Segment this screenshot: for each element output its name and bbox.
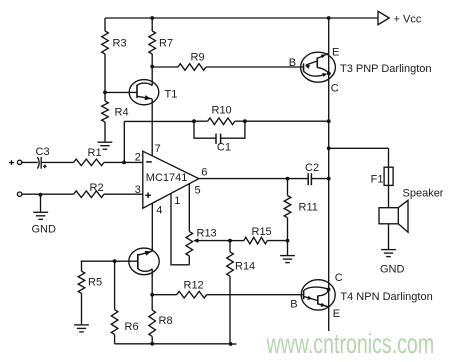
svg-text:E: E [333, 308, 340, 320]
svg-text:7: 7 [155, 143, 161, 155]
svg-text:GND: GND [380, 264, 405, 276]
svg-text:R9: R9 [191, 52, 205, 64]
svg-text:R1: R1 [88, 147, 102, 159]
svg-text:R6: R6 [125, 321, 139, 333]
svg-text:R2: R2 [90, 182, 104, 194]
svg-text:T3 PNP Darlington: T3 PNP Darlington [340, 63, 432, 75]
svg-text:B: B [290, 299, 297, 311]
svg-text:C: C [335, 272, 343, 284]
svg-text:R7: R7 [159, 38, 173, 50]
svg-text:MC1741: MC1741 [146, 172, 188, 184]
svg-text:C2: C2 [305, 162, 319, 174]
svg-text:R10: R10 [212, 105, 232, 117]
svg-text:R14: R14 [235, 261, 255, 273]
svg-text:R3: R3 [113, 38, 127, 50]
svg-text:www.cntronics.com: www.cntronics.com [266, 329, 434, 360]
svg-text:R4: R4 [115, 107, 129, 119]
svg-text:C: C [331, 83, 339, 95]
svg-text:T4 NPN Darlington: T4 NPN Darlington [340, 291, 432, 303]
svg-text:R11: R11 [299, 202, 318, 214]
svg-text:5: 5 [195, 185, 201, 197]
svg-text:GND: GND [32, 224, 57, 236]
svg-text:6: 6 [201, 167, 207, 179]
svg-text:R13: R13 [197, 228, 217, 240]
svg-text:R15: R15 [252, 226, 272, 238]
svg-text:T1: T1 [165, 89, 178, 101]
svg-text:Speaker: Speaker [403, 188, 444, 200]
svg-text:R5: R5 [88, 277, 102, 289]
svg-text:B: B [289, 57, 296, 69]
svg-text:R12: R12 [184, 280, 204, 292]
svg-text:2: 2 [135, 152, 141, 164]
svg-text:4: 4 [156, 205, 162, 217]
svg-text:C1: C1 [217, 142, 231, 154]
svg-text:1: 1 [174, 195, 180, 207]
svg-text:R8: R8 [159, 315, 173, 327]
svg-text:3: 3 [135, 184, 141, 196]
svg-text:E: E [332, 47, 339, 59]
svg-text:C3: C3 [36, 146, 50, 158]
svg-text:F1: F1 [371, 173, 384, 185]
svg-text:+ Vcc: + Vcc [394, 14, 422, 26]
